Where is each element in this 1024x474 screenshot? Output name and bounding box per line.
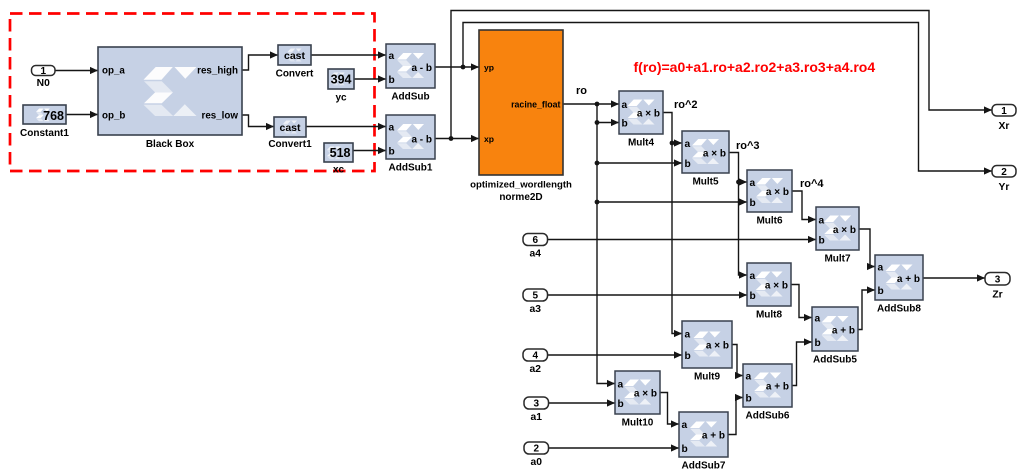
svg-text:a: a bbox=[682, 420, 688, 431]
svg-text:a: a bbox=[389, 122, 395, 133]
svg-text:a2: a2 bbox=[530, 364, 542, 375]
svg-text:a × b: a × b bbox=[706, 341, 729, 352]
svg-text:AddSub8: AddSub8 bbox=[877, 304, 921, 315]
svg-text:Mult9: Mult9 bbox=[694, 372, 721, 383]
svg-text:AddSub7: AddSub7 bbox=[682, 461, 726, 472]
svg-text:res_high: res_high bbox=[197, 66, 238, 77]
svg-text:yp: yp bbox=[484, 63, 494, 73]
svg-text:a + b: a + b bbox=[766, 382, 789, 393]
svg-text:a + b: a + b bbox=[897, 274, 920, 285]
svg-text:b: b bbox=[685, 159, 691, 170]
svg-text:a0: a0 bbox=[531, 457, 543, 468]
svg-text:3: 3 bbox=[533, 399, 539, 410]
svg-text:Mult5: Mult5 bbox=[692, 177, 719, 188]
svg-text:optimized_wordlength: optimized_wordlength bbox=[470, 180, 572, 191]
svg-text:Mult7: Mult7 bbox=[824, 254, 851, 265]
svg-text:racine_float: racine_float bbox=[511, 99, 560, 109]
svg-text:cast: cast bbox=[284, 50, 306, 62]
svg-text:b: b bbox=[682, 444, 688, 455]
svg-text:a: a bbox=[685, 329, 691, 340]
svg-text:b: b bbox=[819, 235, 825, 246]
svg-text:a: a bbox=[618, 379, 624, 390]
svg-text:AddSub1: AddSub1 bbox=[389, 163, 433, 174]
svg-text:Constant1: Constant1 bbox=[20, 128, 69, 139]
svg-text:AddSub6: AddSub6 bbox=[746, 411, 790, 422]
svg-text:xp: xp bbox=[484, 134, 494, 144]
svg-text:Yr: Yr bbox=[999, 182, 1010, 193]
svg-text:Convert1: Convert1 bbox=[268, 139, 312, 150]
svg-text:b: b bbox=[878, 286, 884, 297]
svg-text:f(ro)=a0+a1.ro+a2.ro2+a3.ro3+a: f(ro)=a0+a1.ro+a2.ro2+a3.ro3+a4.ro4 bbox=[634, 59, 876, 75]
svg-text:3: 3 bbox=[995, 274, 1001, 285]
svg-text:b: b bbox=[389, 146, 395, 157]
svg-text:a1: a1 bbox=[531, 412, 543, 423]
svg-text:a: a bbox=[622, 100, 628, 111]
svg-text:2: 2 bbox=[533, 444, 539, 455]
svg-text:394: 394 bbox=[331, 72, 352, 86]
svg-text:Zr: Zr bbox=[992, 290, 1002, 301]
svg-text:b: b bbox=[618, 399, 624, 410]
svg-text:norme2D: norme2D bbox=[499, 192, 542, 203]
svg-text:6: 6 bbox=[532, 235, 538, 246]
svg-text:a4: a4 bbox=[530, 249, 542, 260]
svg-text:b: b bbox=[622, 118, 628, 129]
svg-text:ro^3: ro^3 bbox=[736, 140, 760, 152]
svg-text:b: b bbox=[750, 291, 756, 302]
svg-text:Mult10: Mult10 bbox=[622, 418, 654, 429]
svg-text:Mult6: Mult6 bbox=[756, 216, 783, 227]
svg-text:5: 5 bbox=[532, 291, 538, 302]
svg-text:a × b: a × b bbox=[766, 187, 789, 198]
svg-text:AddSub: AddSub bbox=[391, 92, 429, 103]
svg-text:a: a bbox=[746, 371, 752, 382]
svg-text:Mult4: Mult4 bbox=[628, 138, 655, 149]
svg-text:yc: yc bbox=[335, 93, 347, 104]
svg-text:a: a bbox=[819, 215, 825, 226]
svg-text:b: b bbox=[815, 338, 821, 349]
svg-text:op_b: op_b bbox=[102, 111, 125, 122]
svg-text:a × b: a × b bbox=[703, 149, 726, 160]
svg-text:N0: N0 bbox=[37, 78, 50, 89]
svg-text:a: a bbox=[389, 51, 395, 62]
svg-text:ro^4: ro^4 bbox=[800, 178, 824, 190]
svg-text:1: 1 bbox=[40, 66, 46, 77]
svg-text:a × b: a × b bbox=[765, 281, 788, 292]
svg-text:ro^2: ro^2 bbox=[674, 99, 698, 111]
svg-text:a - b: a - b bbox=[411, 135, 432, 146]
svg-text:a: a bbox=[685, 139, 691, 150]
svg-text:cast: cast bbox=[279, 122, 301, 134]
svg-text:Black Box: Black Box bbox=[146, 139, 195, 150]
svg-text:a + b: a + b bbox=[702, 431, 725, 442]
svg-text:a3: a3 bbox=[530, 304, 542, 315]
svg-text:a × b: a × b bbox=[634, 389, 657, 400]
svg-text:Mult8: Mult8 bbox=[756, 310, 783, 321]
svg-text:Xr: Xr bbox=[999, 121, 1010, 132]
svg-text:b: b bbox=[685, 351, 691, 362]
svg-text:a: a bbox=[750, 178, 756, 189]
svg-text:a + b: a + b bbox=[832, 326, 855, 337]
svg-text:res_low: res_low bbox=[202, 111, 239, 122]
svg-text:a - b: a - b bbox=[411, 63, 432, 74]
svg-text:xc: xc bbox=[333, 165, 345, 176]
svg-text:a: a bbox=[815, 313, 821, 324]
svg-text:a: a bbox=[750, 271, 756, 282]
svg-text:Convert: Convert bbox=[276, 69, 314, 80]
svg-text:768: 768 bbox=[43, 109, 64, 123]
svg-text:a × b: a × b bbox=[637, 109, 660, 120]
svg-text:AddSub5: AddSub5 bbox=[813, 355, 857, 366]
svg-text:a: a bbox=[878, 262, 884, 273]
svg-text:b: b bbox=[389, 75, 395, 86]
svg-text:a × b: a × b bbox=[833, 225, 856, 236]
svg-text:b: b bbox=[750, 198, 756, 209]
svg-text:ro: ro bbox=[576, 85, 587, 97]
svg-text:4: 4 bbox=[532, 351, 538, 362]
svg-text:1: 1 bbox=[1001, 106, 1007, 117]
svg-text:op_a: op_a bbox=[102, 66, 125, 77]
svg-text:2: 2 bbox=[1001, 167, 1007, 178]
svg-text:b: b bbox=[746, 393, 752, 404]
svg-text:518: 518 bbox=[330, 146, 351, 160]
